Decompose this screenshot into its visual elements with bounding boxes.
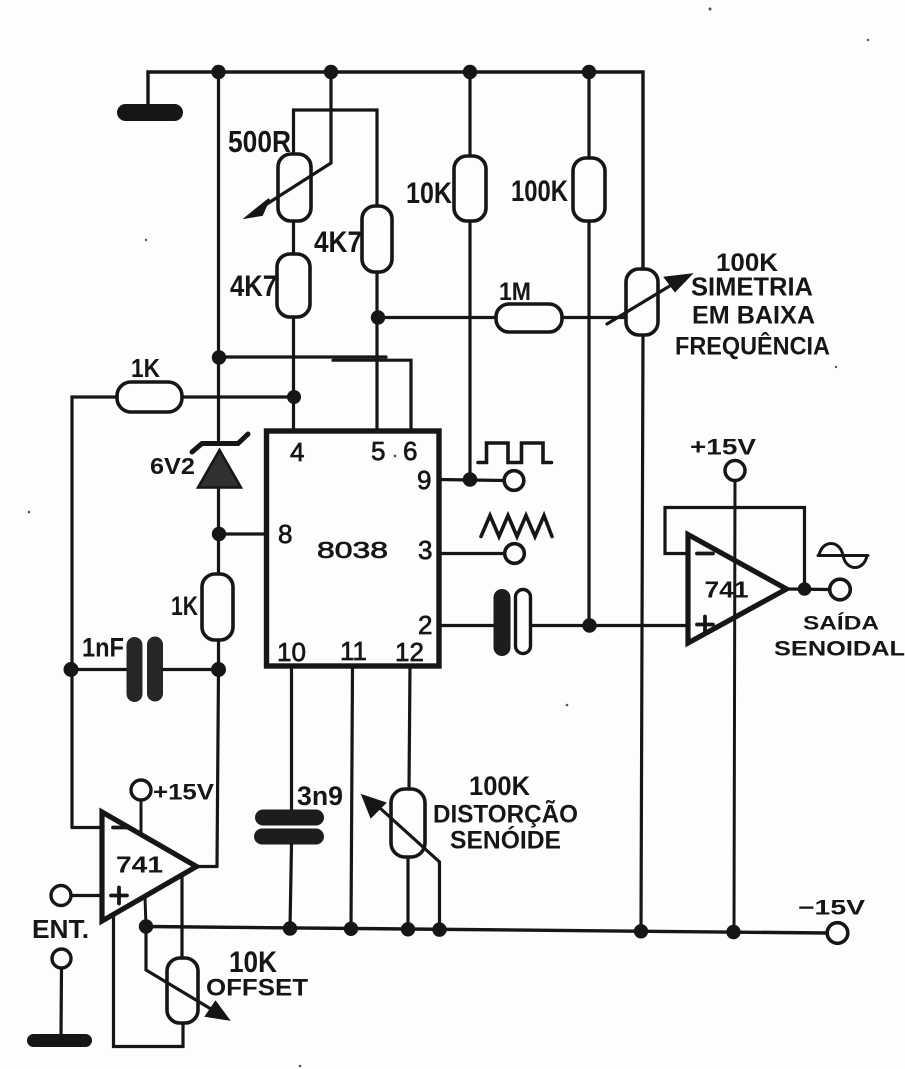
svg-text:11: 11 <box>340 636 367 666</box>
svg-text:SIMETRIA: SIMETRIA <box>691 272 813 302</box>
terminal square-wave output circle <box>504 471 524 491</box>
wire 10K down to pin9 <box>468 221 471 480</box>
simetria wiper arrow <box>607 275 691 325</box>
ground bar <box>27 1034 92 1047</box>
wire simetria pot down to -15V rail <box>641 335 643 931</box>
wire 1K right lead to pin4 node <box>182 395 294 398</box>
wire offset pin5 lead <box>180 877 183 959</box>
svg-text:3: 3 <box>418 535 432 565</box>
node 1M left junction <box>371 310 385 324</box>
wire output to feedback corner <box>197 865 218 868</box>
wire V- stub to rail <box>145 897 146 927</box>
svg-text:EM BAIXA: EM BAIXA <box>692 302 815 330</box>
wire input to plus <box>71 894 102 897</box>
wire pin11 <box>351 666 353 929</box>
op-amp IC 8038 body <box>267 431 440 666</box>
wire capacitor to op-amp plus input <box>531 624 689 627</box>
terminal triangle-wave output circle <box>505 544 525 564</box>
node pin6 branch junction <box>212 350 226 364</box>
wire 1nF left lead <box>71 668 127 671</box>
capacitor 1nF right plate <box>147 637 163 702</box>
wire 1nF node down to op-amp output corner <box>217 669 219 867</box>
square wave symbol <box>478 443 552 463</box>
zener diode 6V2 cathode bar <box>192 434 248 452</box>
wire pin10 upper lead <box>290 666 293 810</box>
capacitor 3n9 top plate <box>255 810 324 826</box>
resistor 10K body <box>454 156 486 221</box>
wire pin6 horizontal branch <box>219 355 387 358</box>
svg-text:4K7: 4K7 <box>230 270 277 303</box>
svg-text:3n9: 3n9 <box>297 781 343 811</box>
svg-text:+15V: +15V <box>153 780 214 805</box>
svg-text:10: 10 <box>277 637 306 667</box>
wire input ground <box>59 968 63 1035</box>
wire 10K branch <box>468 72 471 156</box>
offset wiper arrow <box>146 927 229 1020</box>
supply terminal bar <box>117 104 183 121</box>
svg-text:6V2: 6V2 <box>150 453 195 479</box>
wire 1M right lead to pot <box>562 316 626 319</box>
plus input mark left 741 <box>111 888 127 904</box>
svg-text:8038: 8038 <box>317 537 388 563</box>
capacitor 1nF left plate <box>127 637 143 702</box>
node 500R wiper junction <box>324 65 338 79</box>
node 1nF right junction <box>211 662 226 677</box>
wire 500R to 4K7 <box>292 221 295 254</box>
minus input mark right 741 <box>697 552 713 556</box>
wire +15V through op-amp to -15V rail <box>734 481 735 933</box>
svg-text:10K: 10K <box>406 177 452 210</box>
distorcao wiper arrow <box>363 796 440 930</box>
svg-text:1nF: 1nF <box>82 633 124 663</box>
wire 4K7 right down to pin5 <box>375 272 378 428</box>
svg-text:100K: 100K <box>469 771 530 801</box>
wire top supply rail <box>148 72 643 269</box>
wire pin3 <box>439 552 506 555</box>
potentiometer 100K simetria body <box>626 269 658 335</box>
wire 4K7 down to pin4 <box>292 317 295 428</box>
node rail pin11 junction <box>344 922 358 936</box>
node rail pin10 junction <box>283 921 297 935</box>
svg-text:741: 741 <box>116 852 163 878</box>
wire offset pin1 loop <box>114 915 184 1047</box>
resistor 4K7 upper-right body <box>362 206 392 272</box>
svg-text:100K: 100K <box>511 175 568 208</box>
node rail-left vertical junction <box>211 65 225 79</box>
zener diode 6V2 anode triangle <box>198 450 241 488</box>
resistor 1K horizontal body <box>117 382 182 412</box>
wire 100K branch <box>587 72 590 158</box>
node 100K bottom junction <box>582 618 596 632</box>
svg-text:SENÓIDE: SENÓIDE <box>450 825 561 855</box>
wire pin8 <box>219 532 267 535</box>
wire output to terminal <box>787 587 830 591</box>
svg-text:DISTORÇÃO: DISTORÇÃO <box>433 799 578 829</box>
svg-text:2: 2 <box>418 610 432 640</box>
svg-text:8: 8 <box>278 519 292 549</box>
svg-text:FREQUÊNCIA: FREQUÊNCIA <box>675 331 830 361</box>
terminal +15V left circle <box>131 780 151 800</box>
node rail distorcao junction <box>401 922 415 936</box>
wire left main vertical bus <box>217 72 220 440</box>
node output feedback junction <box>798 582 812 596</box>
svg-text:9: 9 <box>417 465 431 495</box>
node pin8 branch junction <box>212 527 226 541</box>
potentiometer 100K distorcao body <box>391 789 425 857</box>
terminal saida senoidal circle <box>830 579 851 600</box>
wire zener to 1K vertical <box>217 487 220 574</box>
wire 1M left lead <box>378 316 496 319</box>
svg-text:4K7: 4K7 <box>314 226 362 259</box>
wire pin10 lower lead <box>290 845 292 929</box>
wire 500R top bridge <box>294 110 378 206</box>
wire distorcao pot lower lead <box>406 857 409 929</box>
node pin4 1K junction <box>287 390 301 404</box>
node pin9 junction <box>463 472 478 487</box>
svg-text:+15V: +15V <box>690 435 756 460</box>
terminal input ground circle <box>52 949 71 968</box>
wire 1nF right lead <box>163 668 219 671</box>
svg-text:4: 4 <box>290 437 304 467</box>
wire +15V stub <box>140 800 143 835</box>
capacitor output coupling outlined plate <box>516 590 531 654</box>
minus input mark left 741 <box>113 826 130 830</box>
op-amp U1 741 left triangle <box>102 812 197 921</box>
capacitor 3n9 bottom plate <box>254 829 324 845</box>
resistor 1M body <box>496 304 562 332</box>
resistor 4K7 upper-left body <box>277 254 310 317</box>
triangle wave symbol <box>481 516 552 537</box>
terminal -15V circle <box>827 923 848 944</box>
potentiometer R 500R body <box>278 154 311 221</box>
node rail simetria junction <box>634 924 648 938</box>
500R wiper arrow <box>246 72 331 218</box>
node -15V rail op-amp junction <box>726 925 740 939</box>
op-amp U2 741 right triangle <box>688 535 787 644</box>
node rail op-amp V- junction <box>139 919 153 933</box>
svg-text:741: 741 <box>705 577 749 603</box>
svg-text:−15V: −15V <box>798 897 865 920</box>
svg-text:6: 6 <box>403 436 417 466</box>
wire minus input <box>72 826 102 829</box>
svg-text:500R: 500R <box>228 124 291 159</box>
sine wave symbol <box>818 544 868 568</box>
wire pin12 upper lead <box>409 666 410 789</box>
capacitor output coupling filled plate <box>494 589 511 656</box>
svg-text:12: 12 <box>395 637 424 667</box>
svg-text:OFFSET: OFFSET <box>206 975 308 1002</box>
svg-text:SENOIDAL: SENOIDAL <box>774 638 905 661</box>
wire 100K down to pin2 wire <box>587 221 590 626</box>
resistor 1K vertical body <box>202 574 233 640</box>
svg-text:1K: 1K <box>171 591 198 621</box>
terminal +15V right circle <box>725 461 745 481</box>
svg-text:ENT.: ENT. <box>32 914 89 944</box>
terminal input plus circle <box>51 886 71 906</box>
potentiometer 10K offset body <box>167 958 198 1023</box>
wire pin2 to capacitor <box>439 624 495 627</box>
wire 1K vertical to 1nF node <box>217 640 220 669</box>
svg-text:1M: 1M <box>499 278 531 306</box>
wire pin9 <box>439 480 505 481</box>
node 1nF left junction <box>64 662 79 677</box>
svg-text:SAÍDA: SAÍDA <box>803 612 879 635</box>
plus input mark right 741 <box>697 617 713 633</box>
svg-text:5: 5 <box>371 436 385 466</box>
wire 1K left lead down feedback <box>72 397 117 828</box>
node 10K top junction <box>463 65 477 79</box>
resistor 100K body <box>573 158 605 221</box>
node 100K top junction <box>582 65 596 79</box>
wire feedback loop right 741 <box>665 508 805 590</box>
svg-text:1K: 1K <box>131 353 160 383</box>
wire -15V rail <box>146 927 827 934</box>
node rail distorcao wiper junction <box>432 922 446 936</box>
